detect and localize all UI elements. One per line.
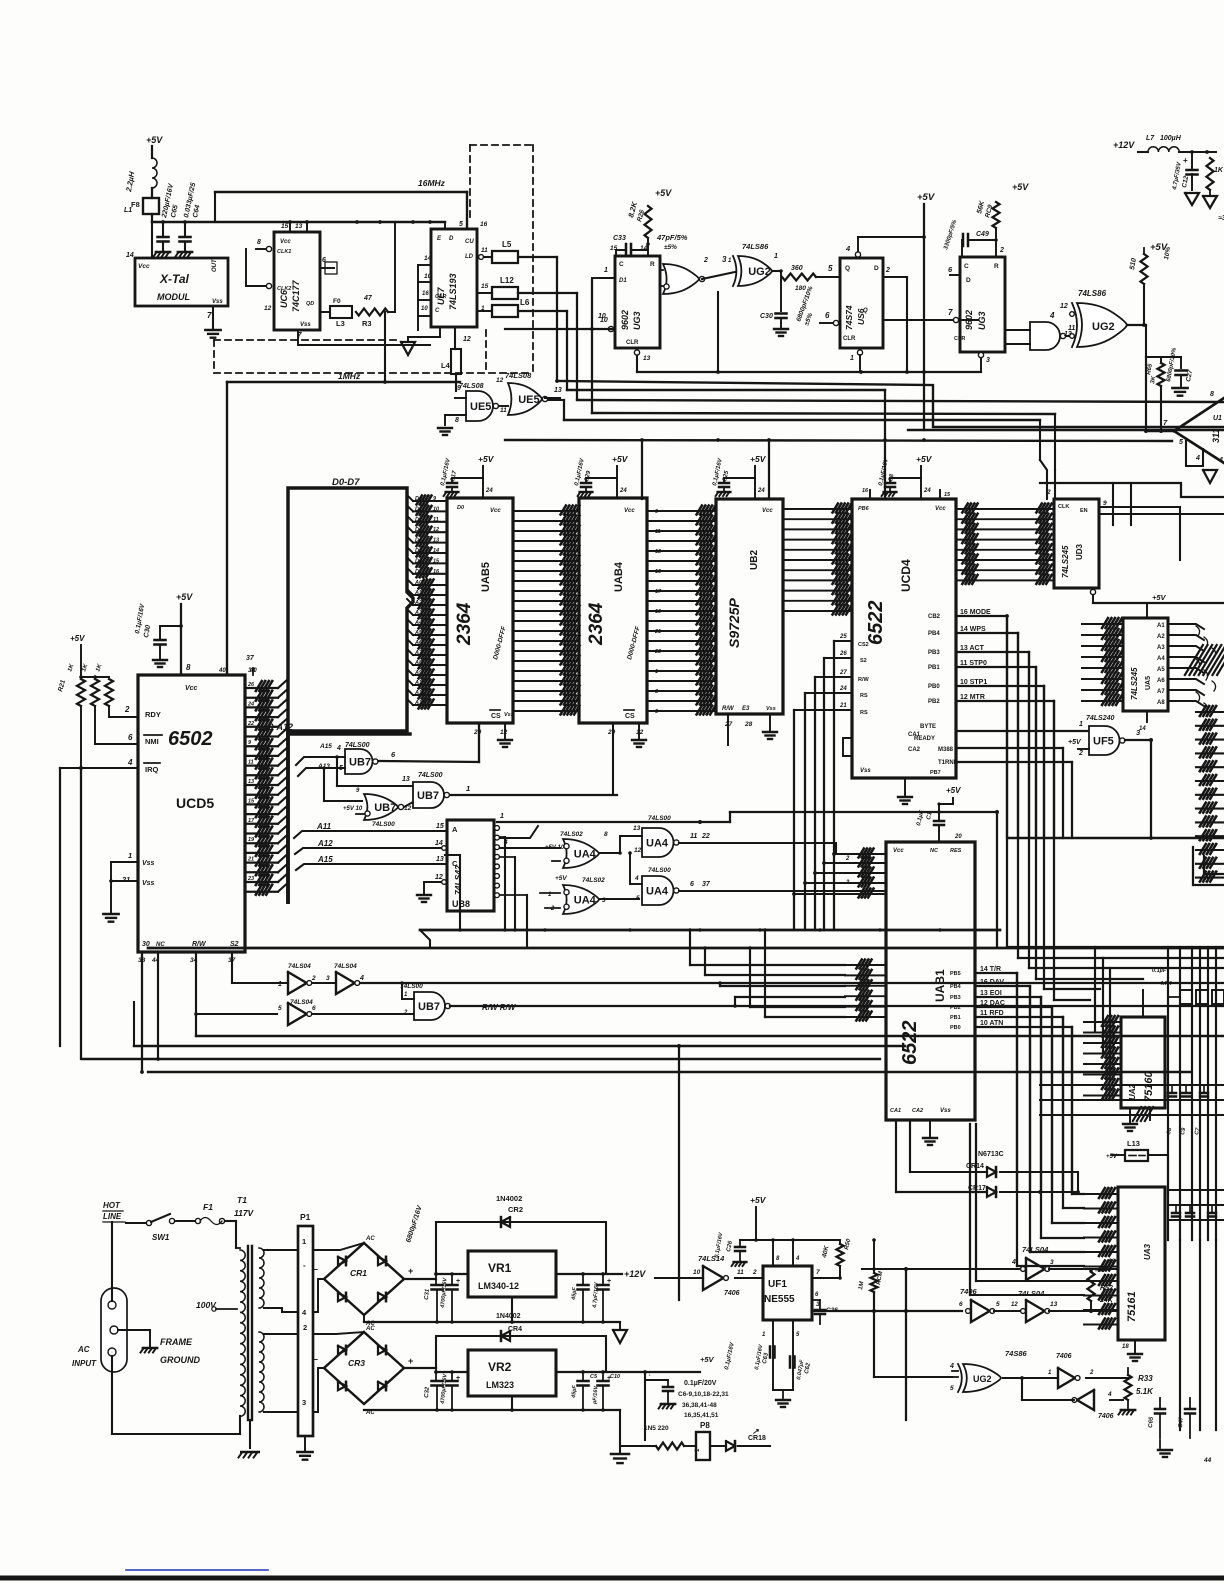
- svg-text:2: 2: [403, 1010, 408, 1016]
- svg-text:+5V: +5V: [700, 1355, 715, 1364]
- svg-text:17: 17: [655, 589, 662, 595]
- svg-text:C6-9,10,18-22,31: C6-9,10,18-22,31: [678, 1391, 729, 1398]
- svg-text:RDY: RDY: [145, 710, 161, 719]
- svg-text:M388: M388: [938, 747, 954, 753]
- svg-text:RS: RS: [860, 710, 868, 716]
- svg-text:CLK1: CLK1: [277, 249, 291, 255]
- svg-text:2: 2: [752, 1269, 757, 1276]
- svg-text:Vss: Vss: [142, 860, 155, 867]
- svg-text:19: 19: [655, 609, 662, 615]
- svg-text:74LS04: 74LS04: [1022, 1245, 1049, 1254]
- svg-text:1N4002: 1N4002: [496, 1313, 521, 1320]
- svg-text:A3: A3: [1157, 645, 1165, 651]
- svg-text:5: 5: [950, 1385, 954, 1392]
- svg-text:C49: C49: [976, 231, 989, 238]
- svg-text:2: 2: [124, 705, 130, 714]
- svg-text:1: 1: [1079, 721, 1083, 728]
- svg-text:A8: A8: [1157, 700, 1165, 706]
- svg-text:MODUL: MODUL: [157, 292, 190, 302]
- svg-text:C65: C65: [1148, 1416, 1155, 1428]
- svg-text:7: 7: [816, 1269, 820, 1276]
- svg-text:+5V: +5V: [70, 634, 85, 643]
- svg-text:PB0: PB0: [950, 1025, 961, 1031]
- svg-text:UG3: UG3: [977, 311, 987, 330]
- svg-text:74LS193: 74LS193: [448, 273, 458, 310]
- svg-text:12: 12: [500, 729, 508, 736]
- svg-text:1K: 1K: [1214, 167, 1224, 174]
- svg-text:Vss: Vss: [142, 880, 155, 887]
- svg-text:7406: 7406: [960, 1287, 978, 1296]
- svg-text:360: 360: [791, 265, 803, 272]
- svg-text:23: 23: [247, 876, 254, 882]
- svg-text:100µH: 100µH: [1160, 135, 1182, 142]
- svg-text:CR2: CR2: [508, 1205, 523, 1214]
- svg-text:74LS14: 74LS14: [698, 1254, 725, 1263]
- svg-text:UB2: UB2: [749, 550, 760, 570]
- svg-text:9: 9: [1103, 500, 1107, 507]
- svg-text:8: 8: [455, 417, 459, 424]
- svg-text:74LS245: 74LS245: [1130, 667, 1139, 700]
- svg-text:UAB1: UAB1: [933, 969, 947, 1002]
- svg-text:UG2: UG2: [748, 266, 771, 278]
- svg-text:UCD4: UCD4: [899, 559, 913, 592]
- svg-text:Vcc: Vcc: [138, 263, 150, 270]
- svg-text:4: 4: [1049, 311, 1055, 320]
- svg-text:VR2: VR2: [488, 1360, 512, 1374]
- svg-text:UB7: UB7: [349, 757, 371, 769]
- svg-text:8: 8: [257, 239, 261, 246]
- svg-text:11: 11: [248, 760, 254, 766]
- svg-text:UA3: UA3: [1143, 1243, 1152, 1260]
- svg-text:+5V: +5V: [612, 454, 629, 464]
- svg-text:4: 4: [1107, 1391, 1112, 1398]
- svg-text:UB7: UB7: [417, 790, 439, 802]
- svg-text:16: 16: [433, 569, 440, 575]
- svg-text:23: 23: [654, 649, 661, 655]
- svg-text:74S86: 74S86: [1005, 1349, 1028, 1358]
- svg-text:P1: P1: [300, 1212, 311, 1222]
- svg-text:UA4: UA4: [574, 895, 597, 907]
- svg-text:PB7: PB7: [930, 770, 941, 776]
- svg-text:UA4: UA4: [646, 886, 669, 898]
- svg-text:5: 5: [459, 221, 463, 228]
- svg-text:PB5: PB5: [950, 971, 961, 977]
- svg-text:≈3: ≈3: [1218, 215, 1224, 222]
- svg-text:47: 47: [363, 295, 373, 302]
- svg-text:+5V 10: +5V 10: [343, 806, 363, 812]
- svg-text:D: D: [874, 265, 879, 272]
- svg-text:UG3: UG3: [632, 311, 642, 330]
- svg-text:3: 3: [302, 1398, 306, 1407]
- svg-text:F8: F8: [131, 200, 140, 209]
- svg-text:+5V: +5V: [478, 454, 495, 464]
- svg-text:UA4: UA4: [574, 849, 597, 861]
- svg-text:CLK: CLK: [1058, 504, 1069, 510]
- svg-text:4.7K: 4.7K: [1159, 981, 1173, 987]
- svg-text:74LS08: 74LS08: [459, 383, 484, 390]
- svg-text:+: +: [1183, 156, 1188, 165]
- svg-text:3: 3: [655, 689, 658, 695]
- svg-text:13: 13: [554, 387, 562, 394]
- svg-text:44: 44: [1203, 1457, 1212, 1464]
- svg-text:AC: AC: [365, 1236, 375, 1242]
- svg-text:UCD5: UCD5: [176, 795, 214, 811]
- svg-text:6502: 6502: [168, 728, 213, 750]
- svg-text:37: 37: [246, 655, 255, 662]
- svg-text:Vcc: Vcc: [280, 239, 291, 245]
- svg-text:A15: A15: [317, 855, 333, 864]
- svg-text:–: –: [313, 1264, 318, 1274]
- svg-text:74LS86: 74LS86: [1078, 289, 1107, 298]
- svg-text:CS: CS: [625, 713, 635, 720]
- svg-text:L5: L5: [502, 240, 512, 249]
- svg-text:1: 1: [278, 981, 282, 988]
- svg-text:D0: D0: [457, 505, 464, 511]
- svg-text:20: 20: [607, 729, 616, 736]
- svg-text:75161: 75161: [1126, 1291, 1138, 1322]
- svg-text:2: 2: [1078, 750, 1083, 757]
- svg-text:16: 16: [480, 221, 488, 228]
- svg-text:R52: R52: [1100, 1285, 1113, 1292]
- svg-text:24: 24: [619, 488, 627, 494]
- svg-text:1: 1: [500, 813, 504, 820]
- svg-text:37: 37: [702, 881, 711, 888]
- svg-text:180: 180: [795, 285, 806, 292]
- svg-text:R33: R33: [1138, 1374, 1153, 1383]
- svg-text:PB0: PB0: [928, 684, 940, 690]
- svg-text:20: 20: [473, 729, 482, 736]
- svg-text:R: R: [994, 263, 999, 270]
- svg-text:PB6: PB6: [858, 506, 870, 512]
- svg-text:1: 1: [604, 267, 608, 274]
- svg-text:74LS00: 74LS00: [345, 742, 370, 749]
- svg-text:P8: P8: [700, 1421, 710, 1430]
- svg-text:+5V: +5V: [750, 1195, 767, 1205]
- svg-text:13: 13: [1108, 1258, 1116, 1265]
- svg-text:21: 21: [121, 875, 130, 884]
- svg-text:NMI: NMI: [145, 737, 159, 746]
- svg-text:5: 5: [996, 1301, 1000, 1308]
- svg-text:CR14: CR14: [966, 1163, 984, 1170]
- svg-text:PB1: PB1: [950, 1015, 961, 1021]
- svg-text:R: R: [650, 261, 655, 268]
- svg-text:13: 13: [633, 825, 641, 832]
- svg-text:PB2: PB2: [928, 699, 940, 705]
- svg-text:36,38,41-48: 36,38,41-48: [682, 1402, 717, 1409]
- svg-text:LD: LD: [465, 254, 474, 260]
- svg-text:9: 9: [457, 385, 461, 392]
- svg-text:15: 15: [944, 492, 951, 498]
- svg-text:R3: R3: [362, 319, 372, 328]
- svg-text:CU: CU: [465, 239, 474, 245]
- svg-text:+12V: +12V: [1113, 140, 1135, 150]
- svg-text:19: 19: [248, 837, 255, 843]
- svg-text:21: 21: [839, 703, 847, 709]
- svg-text:5: 5: [636, 895, 640, 902]
- svg-text:FRAME: FRAME: [160, 1337, 193, 1347]
- svg-text:CA2: CA2: [912, 1108, 923, 1114]
- svg-text:1: 1: [774, 253, 778, 260]
- svg-text:+5V: +5V: [1152, 593, 1167, 602]
- svg-text:Q: Q: [845, 265, 850, 272]
- svg-text:74LS00: 74LS00: [372, 821, 395, 828]
- svg-text:F1: F1: [203, 1202, 213, 1212]
- svg-text:16: 16: [422, 291, 429, 297]
- svg-text:Q: Q: [863, 308, 868, 314]
- svg-text:A0-A12: A0-A12: [261, 722, 293, 732]
- svg-text:74LS04: 74LS04: [334, 963, 357, 970]
- svg-text:UAB5: UAB5: [480, 562, 492, 592]
- svg-text:CLK2: CLK2: [277, 286, 291, 292]
- svg-text:E3: E3: [742, 706, 750, 712]
- svg-text:D: D: [966, 277, 971, 284]
- svg-text:12: 12: [264, 305, 272, 312]
- svg-text:IRQ: IRQ: [145, 765, 159, 774]
- svg-text:11: 11: [433, 517, 439, 523]
- svg-text:0.1µF/20V: 0.1µF/20V: [684, 1380, 717, 1387]
- svg-text:74LS245: 74LS245: [1061, 545, 1070, 578]
- svg-text:+5V: +5V: [176, 592, 193, 602]
- svg-text:6: 6: [959, 1301, 963, 1308]
- svg-text:26: 26: [839, 651, 847, 657]
- svg-text:C31: C31: [424, 1288, 431, 1300]
- svg-text:UB7: UB7: [374, 802, 396, 814]
- svg-text:15: 15: [655, 569, 662, 575]
- svg-text:A12: A12: [317, 839, 333, 848]
- svg-text:+5V: +5V: [917, 192, 935, 203]
- svg-text:14: 14: [435, 840, 443, 847]
- svg-text:Vss: Vss: [766, 706, 776, 712]
- svg-text:LM323: LM323: [486, 1380, 514, 1390]
- svg-text:UB7: UB7: [418, 1001, 440, 1013]
- svg-text:CB2: CB2: [928, 614, 941, 620]
- svg-text:8: 8: [604, 831, 608, 838]
- svg-text:L12: L12: [500, 276, 514, 285]
- svg-text:74LS04: 74LS04: [1018, 1289, 1045, 1298]
- svg-text:21: 21: [247, 857, 254, 863]
- svg-text:24: 24: [839, 686, 847, 692]
- svg-text:PB4: PB4: [928, 631, 940, 637]
- svg-text:UG2: UG2: [1092, 321, 1115, 333]
- svg-text:X-Tal: X-Tal: [159, 272, 190, 286]
- svg-text:+: +: [456, 1375, 460, 1382]
- svg-text:11: 11: [737, 1269, 744, 1276]
- svg-text:74LS00: 74LS00: [400, 983, 423, 990]
- svg-text:4: 4: [1011, 1259, 1016, 1266]
- svg-text:1: 1: [655, 669, 658, 675]
- svg-text:3: 3: [986, 357, 990, 364]
- svg-text:4: 4: [127, 758, 133, 767]
- svg-text:QD: QD: [306, 301, 314, 307]
- svg-text:A2: A2: [1157, 634, 1165, 640]
- svg-text:GROUND: GROUND: [160, 1355, 200, 1365]
- svg-text:2364: 2364: [586, 602, 607, 646]
- svg-text:CLR: CLR: [843, 336, 856, 342]
- svg-text:CR1: CR1: [350, 1268, 367, 1278]
- svg-text:15: 15: [281, 223, 289, 230]
- svg-text:28: 28: [744, 721, 753, 728]
- svg-text:PB2: PB2: [950, 1005, 961, 1011]
- svg-text:D: D: [449, 236, 454, 242]
- svg-text:Vss: Vss: [212, 299, 223, 305]
- svg-text:11: 11: [481, 247, 488, 254]
- svg-text:4: 4: [634, 875, 639, 882]
- svg-text:74LS00: 74LS00: [648, 815, 671, 822]
- svg-text:13: 13: [402, 776, 410, 783]
- svg-text:C: C: [435, 308, 440, 314]
- svg-text:11: 11: [690, 833, 697, 840]
- svg-text:+12V: +12V: [624, 1269, 646, 1279]
- svg-text:2364: 2364: [454, 602, 475, 646]
- svg-text:15: 15: [481, 283, 489, 290]
- svg-text:74LS86: 74LS86: [742, 242, 769, 251]
- svg-text:45µF: 45µF: [571, 1286, 578, 1301]
- svg-text:UD3: UD3: [1075, 543, 1084, 560]
- svg-text:22: 22: [701, 833, 710, 840]
- svg-text:2: 2: [1089, 1370, 1094, 1376]
- svg-text:A6: A6: [1157, 678, 1165, 684]
- svg-text:D1: D1: [619, 278, 627, 284]
- svg-text:15: 15: [433, 558, 440, 564]
- svg-text:13: 13: [655, 549, 661, 555]
- svg-text:HOT: HOT: [103, 1201, 121, 1210]
- svg-text:5: 5: [278, 1005, 282, 1012]
- svg-text:L6: L6: [520, 298, 530, 307]
- svg-text:1: 1: [466, 784, 470, 793]
- svg-text:+5V: +5V: [1068, 739, 1082, 746]
- svg-text:CLR: CLR: [435, 294, 446, 300]
- svg-text:6: 6: [690, 881, 694, 888]
- svg-text:8: 8: [1210, 391, 1214, 398]
- svg-text:EN: EN: [1080, 508, 1088, 514]
- svg-text:RES: RES: [950, 848, 962, 854]
- svg-text:13: 13: [1050, 1301, 1058, 1308]
- svg-text:UE5: UE5: [518, 394, 539, 406]
- svg-text:PB3: PB3: [928, 650, 940, 656]
- svg-text:C33: C33: [613, 235, 626, 242]
- svg-text:74S74: 74S74: [844, 305, 854, 330]
- svg-text:5: 5: [828, 264, 833, 273]
- svg-text:+5V: +5V: [655, 188, 672, 198]
- svg-text:3: 3: [1050, 1259, 1054, 1266]
- svg-text:7: 7: [948, 308, 953, 317]
- svg-text:NC: NC: [930, 848, 939, 854]
- svg-text:15: 15: [248, 798, 255, 804]
- svg-text:2: 2: [311, 975, 316, 982]
- svg-text:A11: A11: [316, 822, 332, 831]
- svg-text:74LS02: 74LS02: [582, 877, 605, 884]
- svg-text:74LS02: 74LS02: [560, 831, 583, 838]
- svg-text:+5V: +5V: [916, 454, 933, 464]
- svg-text:+5V: +5V: [146, 135, 163, 145]
- svg-text:74LS08: 74LS08: [505, 371, 532, 380]
- svg-text:+: +: [408, 1266, 413, 1276]
- svg-text:2: 2: [885, 267, 890, 274]
- svg-text:C: C: [619, 261, 624, 268]
- svg-text:2: 2: [845, 856, 850, 862]
- svg-text:A7: A7: [1157, 689, 1165, 695]
- svg-text:16,35,41,51: 16,35,41,51: [684, 1412, 719, 1419]
- svg-text:7406: 7406: [1098, 1413, 1114, 1420]
- svg-text:10: 10: [433, 506, 439, 512]
- svg-text:Vcc: Vcc: [185, 685, 198, 692]
- svg-text:12: 12: [433, 527, 439, 533]
- svg-text:40: 40: [218, 668, 226, 674]
- svg-text:22: 22: [247, 721, 254, 727]
- svg-text:CA1: CA1: [908, 732, 921, 738]
- svg-text:RS: RS: [860, 693, 868, 699]
- svg-text:A: A: [452, 825, 458, 834]
- svg-text:BYTE: BYTE: [920, 724, 936, 730]
- svg-text:CR3: CR3: [348, 1358, 365, 1368]
- svg-text:9602: 9602: [620, 310, 630, 330]
- svg-text:Vss: Vss: [940, 1108, 951, 1114]
- svg-text:9602: 9602: [964, 310, 974, 330]
- svg-text:Vcc: Vcc: [893, 848, 904, 854]
- svg-text:AC: AC: [77, 1345, 90, 1354]
- svg-text:SW1: SW1: [152, 1233, 170, 1242]
- svg-text:L13: L13: [1127, 1139, 1140, 1148]
- svg-text:74C177: 74C177: [291, 279, 301, 312]
- svg-text:+: +: [607, 1278, 611, 1285]
- svg-text:12: 12: [463, 336, 471, 343]
- svg-text:45µF: 45µF: [571, 1384, 578, 1399]
- svg-text:INPUT: INPUT: [72, 1359, 97, 1368]
- svg-text:14: 14: [126, 252, 134, 259]
- svg-text:CS: CS: [491, 713, 501, 720]
- svg-text:75160: 75160: [1143, 1071, 1155, 1102]
- svg-text:+5V: +5V: [946, 786, 961, 795]
- svg-text:25: 25: [839, 634, 847, 640]
- svg-text:13: 13: [436, 856, 444, 863]
- svg-text:27: 27: [839, 670, 847, 676]
- svg-text:Vcc: Vcc: [762, 508, 773, 514]
- svg-text:16: 16: [862, 488, 869, 494]
- svg-text:NE555: NE555: [764, 1294, 795, 1305]
- svg-text:Vss: Vss: [504, 712, 514, 718]
- svg-text:1N4002: 1N4002: [496, 1194, 522, 1203]
- svg-text:2: 2: [703, 257, 708, 264]
- svg-text:12: 12: [496, 377, 504, 384]
- svg-text:10: 10: [421, 306, 428, 312]
- svg-text:6522: 6522: [899, 1021, 921, 1066]
- svg-text:R/W R/W: R/W R/W: [482, 1003, 517, 1012]
- svg-text:2: 2: [550, 906, 555, 912]
- svg-text:0.1µF: 0.1µF: [1152, 968, 1167, 974]
- svg-text:12: 12: [1011, 1302, 1018, 1308]
- svg-text:Vcc: Vcc: [935, 506, 946, 512]
- svg-text:13: 13: [643, 355, 651, 362]
- svg-text:8: 8: [186, 663, 191, 672]
- svg-text:4: 4: [845, 244, 851, 253]
- svg-text:LM340-12: LM340-12: [478, 1281, 519, 1291]
- svg-text:OUT: OUT: [212, 258, 218, 272]
- svg-text:F0: F0: [333, 298, 341, 305]
- svg-text:5: 5: [1179, 439, 1183, 446]
- svg-text:CLR: CLR: [954, 336, 965, 342]
- svg-text:11: 11: [500, 407, 507, 414]
- svg-text:+5V 10: +5V 10: [545, 845, 565, 851]
- svg-text:74LS42: 74LS42: [453, 865, 463, 895]
- svg-text:17: 17: [248, 818, 255, 824]
- svg-text:LINE: LINE: [103, 1212, 122, 1221]
- svg-text:4: 4: [1218, 457, 1223, 464]
- svg-text:20: 20: [954, 834, 962, 840]
- svg-text:2: 2: [1046, 489, 1051, 496]
- svg-text:4: 4: [336, 745, 341, 752]
- svg-text:+: +: [408, 1356, 413, 1366]
- svg-text:4: 4: [795, 1256, 800, 1262]
